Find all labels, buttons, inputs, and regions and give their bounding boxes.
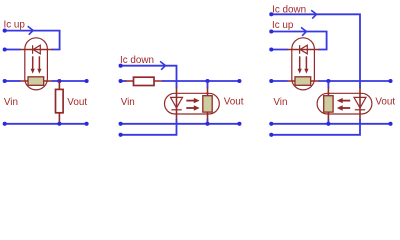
U3 light arrow 1 (down) (299, 56, 301, 69)
resistor R1 body (56, 89, 64, 112)
wire LED cathode return c2 (121, 119, 177, 135)
wire bottom rail c3 (271, 123, 390, 125)
resistor R1 bottom lead (58, 113, 60, 124)
U2 LED triangle (pointing down) (171, 97, 183, 108)
U3 photoresistor pin leads (287, 80, 319, 82)
svg-text:Vin: Vin (121, 97, 135, 108)
node Vout+ terminal c2 (237, 79, 241, 83)
U1 LED triangle (33, 45, 40, 54)
svg-text:Ic down: Ic down (120, 55, 154, 66)
node Ic down terminal c3 (269, 12, 273, 16)
node Vout- terminal c1 (85, 122, 89, 126)
U2 photoresistor body (203, 96, 212, 112)
node Ic- terminal c2 (119, 133, 123, 137)
U1 LED cathode bar (32, 45, 34, 54)
current arrow on Ic up wire c1 (28, 26, 33, 34)
U1 LED pin leads (horizontal through capsule) (20, 49, 52, 51)
U4 LED cathode bar (355, 109, 365, 111)
wire U4 LDR bottom to rail c3 (327, 119, 329, 124)
wire Vin+ c2 left segment (121, 80, 127, 82)
resistor R2 body (horizontal) (134, 77, 155, 85)
node Vin- terminal c2 (119, 122, 123, 126)
optocoupler U3 body (vertical vactrol capsule) (292, 38, 315, 90)
current arrow on Ic down wire c2 (160, 61, 165, 69)
junction node rail/U4 LDR c3 (326, 122, 330, 126)
U4 photoresistor pin leads (327, 88, 329, 121)
U4 LED triangle (pointing down) (354, 97, 366, 108)
wire node C c3: U3 LDR to U4 LDR top and Vout+ (319, 80, 391, 82)
svg-text:Vout: Vout (224, 97, 244, 108)
U3 light arrow 2 (down) (305, 56, 307, 69)
node Ic up terminal c3 (269, 29, 273, 33)
wire LED cathode net c1 (5, 49, 21, 51)
U2 LED pin leads (vertical through capsule) (176, 88, 178, 121)
wire node B c2: resistor to LDR top and Vout+ (162, 80, 239, 82)
U3 LED triangle (300, 45, 307, 54)
junction node B c2 (LDR top) (205, 79, 209, 83)
svg-text:Ic up: Ic up (272, 20, 294, 31)
optocoupler U1 body (vertical vactrol capsule) (25, 38, 48, 90)
node Vout+ terminal c3 (388, 79, 392, 83)
junction node rail/LDR c2 (205, 122, 209, 126)
U1 photoresistor pin leads (20, 80, 52, 82)
node Vout+ terminal c1 (85, 79, 89, 83)
U4 light arrow 2 (left) (342, 107, 350, 109)
U1 light arrow 2 (down) (38, 56, 40, 69)
node Vin+ terminal c1 (3, 79, 7, 83)
node U3 LED cathode terminal c3 (269, 47, 273, 51)
junction node C c3 (U4 LDR top) (326, 79, 330, 83)
U3 photoresistor body (295, 77, 311, 86)
U2 light arrow 1 (right) (186, 100, 194, 102)
wire node A c1: LDR to Vout+ (52, 80, 87, 82)
wire U3 LED cathode net c3 (271, 49, 287, 51)
node Ic- terminal c3 (269, 133, 273, 137)
wire Ic down net c3: left terminal to U4 LED anode (271, 14, 360, 88)
svg-text:Vout: Vout (375, 97, 395, 108)
svg-text:Vout: Vout (67, 97, 87, 108)
U2 light arrow 2 (right) (186, 107, 194, 109)
resistor R1 top lead (58, 81, 60, 90)
svg-text:Vin: Vin (4, 97, 18, 108)
U1 light arrow 1 (down) (32, 56, 34, 69)
node Ic+ terminal c1 (3, 29, 7, 33)
wire Ic up net c3: left terminal to U3 LED anode (271, 32, 326, 50)
U4 photoresistor body (324, 96, 333, 112)
node Vin- terminal c1 (3, 122, 7, 126)
optocoupler U2 body (horizontal vactrol capsule) (165, 93, 220, 114)
node LED cathode terminal c1 (3, 47, 7, 51)
node Vout- terminal c2 (237, 122, 241, 126)
wire Ic down net c2: left terminal to LED anode (121, 66, 177, 89)
wire U4 LDR top vertical c3 (327, 81, 329, 88)
resistor R2 leads (126, 80, 163, 82)
U3 LED cathode bar (299, 45, 301, 54)
wire Vin+ c1 left segment (5, 80, 21, 82)
U3 LED pin leads (287, 49, 319, 51)
current arrow on Ic up wire c3 (301, 27, 306, 35)
junction node rail/R1 c1 (57, 122, 61, 126)
U4 LED pin leads (vertical through capsule) (359, 88, 361, 121)
optocoupler U4 body (horizontal vactrol capsule, mirrored) (317, 93, 372, 114)
wire bottom rail c2 (121, 123, 240, 125)
current arrow on Ic down wire c3 (311, 10, 316, 18)
wire bottom rail c1 (5, 123, 87, 125)
U2 LED cathode bar (171, 109, 181, 111)
wire U4 LED cathode return c3 (271, 119, 360, 135)
junction node A c1 (57, 79, 61, 83)
node Ic+ terminal c2 (119, 64, 123, 68)
node Vin- terminal c3 (269, 122, 273, 126)
wire LDR bottom to rail c2 (207, 119, 209, 124)
node Vin+ terminal c3 (269, 79, 273, 83)
U1 photoresistor body (28, 77, 44, 86)
svg-text:Ic up: Ic up (4, 20, 26, 31)
wire Vin+ c3 left segment (271, 80, 287, 82)
svg-text:Vin: Vin (273, 97, 287, 108)
wire Ic up net c1: left terminal to LED anode (5, 31, 60, 50)
wire LDR top vertical c2 (207, 81, 209, 88)
node Vin+ terminal c2 (119, 79, 123, 83)
U4 light arrow 1 (left) (342, 100, 350, 102)
U2 photoresistor pin leads (207, 88, 209, 121)
node Vout- terminal c3 (388, 122, 392, 126)
